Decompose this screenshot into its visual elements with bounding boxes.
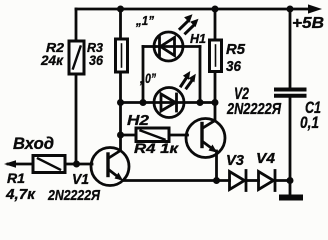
wire R4 left lead bbox=[121, 134, 137, 137]
svg-text:4,7к: 4,7к bbox=[5, 186, 36, 203]
wire R2 bottom lead bbox=[75, 74, 78, 164]
wire H1 left lead bbox=[143, 45, 155, 48]
wire V1 collector diagonal bbox=[110, 151, 121, 158]
node R3 top junction bbox=[117, 6, 124, 13]
svg-text:R4 1к: R4 1к bbox=[134, 141, 179, 156]
svg-text:2N2222Я: 2N2222Я bbox=[47, 187, 101, 204]
resistor R4 bbox=[136, 128, 169, 142]
svg-text:+5В: +5В bbox=[292, 15, 324, 32]
power +5V arrow bbox=[308, 4, 322, 13]
wire H1 left branch vertical bbox=[142, 47, 145, 103]
svg-text:36: 36 bbox=[226, 58, 242, 75]
wire +5V top rail bbox=[76, 8, 311, 11]
svg-text:H1: H1 bbox=[190, 31, 206, 46]
light emission arrows H2 bbox=[181, 71, 196, 88]
svg-text:V4: V4 bbox=[256, 150, 276, 167]
svg-text:„1”: „1” bbox=[135, 13, 154, 28]
svg-text:V3: V3 bbox=[226, 152, 245, 169]
resistor R1 bbox=[33, 156, 65, 173]
wire R1 to V1 base bbox=[65, 163, 92, 166]
node H1 left branch junction bbox=[140, 99, 147, 106]
resistor R3 bbox=[116, 39, 128, 72]
wire H1 right branch vertical bbox=[199, 47, 202, 103]
svg-text:24к: 24к bbox=[40, 52, 64, 68]
svg-text:R5: R5 bbox=[226, 41, 246, 58]
node ground junction bbox=[287, 177, 294, 184]
wire C1 top lead bbox=[289, 9, 292, 87]
wire V2 collector bbox=[203, 103, 215, 128]
svg-text:2N2222Я: 2N2222Я bbox=[226, 101, 281, 118]
node A junction R3 / H2 row bbox=[117, 99, 124, 106]
wire H2 row node A to node B bbox=[121, 101, 216, 104]
wire R2 top lead bbox=[75, 9, 78, 41]
node C1 top junction bbox=[287, 6, 294, 13]
transistor V2 bbox=[186, 119, 225, 158]
wire R5 bottom lead bbox=[214, 72, 217, 103]
svg-text:„0”: „0” bbox=[139, 70, 156, 86]
ground bbox=[279, 195, 303, 201]
wire C1 bottom / ground lead bbox=[289, 98, 292, 195]
node B junction R5 / V2 collector bbox=[212, 99, 219, 106]
wire V4 to ground node bbox=[277, 179, 291, 182]
wire V2 emitter bbox=[215, 151, 218, 181]
node input junction bbox=[73, 161, 80, 168]
LED H1 bbox=[154, 32, 183, 61]
resistor R5 bbox=[210, 40, 222, 72]
node R5 top junction bbox=[212, 6, 219, 13]
wire V3 to V4 bbox=[248, 179, 259, 182]
capacitor C1 bbox=[276, 90, 305, 96]
wire R3 bottom to node A bbox=[119, 72, 122, 103]
node H1 right branch junction bbox=[197, 99, 204, 106]
svg-text:R1: R1 bbox=[7, 170, 25, 186]
node V1 collector / R4 junction bbox=[117, 132, 124, 139]
svg-text:36: 36 bbox=[89, 52, 103, 68]
svg-text:0,1: 0,1 bbox=[300, 113, 319, 132]
wire R3 top lead bbox=[119, 9, 122, 39]
light emission arrows H1 bbox=[180, 14, 199, 33]
diode V3 bbox=[230, 171, 247, 191]
transistor V1 bbox=[91, 148, 129, 186]
svg-text:H2: H2 bbox=[127, 112, 150, 129]
wire R5 top lead bbox=[214, 9, 217, 40]
LED H2 bbox=[154, 88, 184, 118]
wire node A down to V1 collector bbox=[119, 103, 122, 151]
svg-text:V1: V1 bbox=[72, 172, 89, 188]
diode V4 bbox=[259, 171, 276, 191]
wire H1 right lead bbox=[182, 45, 200, 48]
wire emitter row bbox=[123, 179, 230, 182]
svg-text:Вход: Вход bbox=[13, 134, 54, 153]
resistor R2 bbox=[69, 41, 84, 74]
wire V2 base bbox=[169, 134, 188, 137]
node emitter row junction bbox=[213, 177, 220, 184]
wire input lead with arrow bbox=[8, 163, 33, 166]
